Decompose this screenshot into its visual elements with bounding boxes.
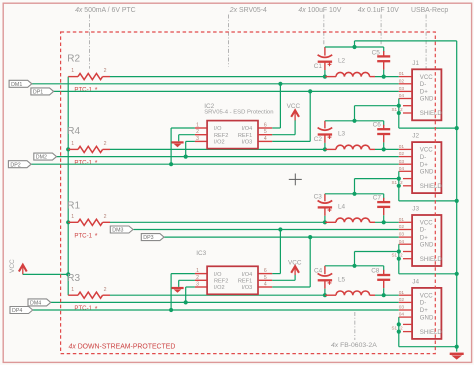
svg-text:*: * bbox=[95, 233, 98, 240]
svg-text:I/O: I/O bbox=[214, 126, 222, 132]
leader for FB-0603 label bbox=[354, 312, 356, 340]
node J4 S1/S2 shield junctions bbox=[397, 322, 401, 326]
wire net DP4 bbox=[33, 309, 399, 311]
resistor R2 (PTC fuse) bbox=[67, 54, 110, 95]
svg-text:4x 500mA / 6V PTC: 4x 500mA / 6V PTC bbox=[75, 7, 136, 14]
svg-text:02: 02 bbox=[399, 151, 405, 157]
svg-text:PTC-1: PTC-1 bbox=[74, 87, 92, 94]
wire right gnd bus bbox=[456, 41, 458, 352]
svg-text:4x 100uF 10V: 4x 100uF 10V bbox=[298, 7, 341, 14]
wire VBUS to coil bbox=[325, 76, 336, 78]
wire GND rail ch4 bbox=[325, 265, 384, 267]
svg-text:VCC: VCC bbox=[288, 259, 302, 266]
svg-text:C6: C6 bbox=[373, 121, 382, 128]
wire coil to C6 bbox=[370, 148, 375, 150]
node DM4 junction bbox=[184, 300, 188, 304]
svg-text:I/O2: I/O2 bbox=[214, 140, 225, 146]
node C3 / VBUS junction bbox=[323, 220, 327, 224]
wire J2 gnd/shield tie bbox=[398, 171, 400, 201]
node flag DP1 bbox=[31, 88, 54, 96]
svg-text:I/O4: I/O4 bbox=[242, 126, 253, 132]
resistor R3 (PTC fuse) bbox=[67, 273, 110, 313]
svg-text:S1: S1 bbox=[392, 326, 398, 331]
svg-text:04: 04 bbox=[399, 312, 405, 318]
svg-text:4x FB-0603-2A: 4x FB-0603-2A bbox=[331, 342, 377, 349]
svg-text:6: 6 bbox=[264, 268, 267, 274]
wire J1 shield to gnd bus bbox=[399, 127, 457, 129]
svg-text:USBA-Recp: USBA-Recp bbox=[411, 7, 448, 14]
svg-text:R1: R1 bbox=[67, 200, 80, 211]
svg-text:J4: J4 bbox=[412, 278, 419, 285]
svg-text:02: 02 bbox=[399, 78, 405, 84]
svg-text:R4: R4 bbox=[67, 126, 80, 137]
node flag DP2 bbox=[8, 161, 31, 169]
svg-text:C3: C3 bbox=[314, 193, 323, 200]
svg-text:C1: C1 bbox=[314, 63, 323, 70]
svg-text:1: 1 bbox=[71, 287, 74, 293]
node DP2 junction bbox=[169, 162, 173, 166]
svg-text:GND: GND bbox=[420, 169, 434, 176]
node C5 / VBUS junction bbox=[382, 75, 386, 79]
svg-text:PTC-1: PTC-1 bbox=[74, 305, 92, 312]
wire J1 gnd/shield tie bbox=[398, 99, 400, 129]
svg-text:C4: C4 bbox=[314, 268, 323, 275]
svg-text:PTC-1: PTC-1 bbox=[74, 232, 92, 239]
svg-text:01: 01 bbox=[399, 217, 405, 223]
wire coil to C8 bbox=[370, 294, 375, 296]
svg-text:D+: D+ bbox=[420, 89, 428, 96]
wire DP4 to IC pin 1 bbox=[170, 274, 172, 310]
node VBUS taps bbox=[66, 147, 70, 151]
node C7 / VBUS junction bbox=[382, 220, 386, 224]
inductor L2 (ferrite bead) bbox=[336, 58, 370, 77]
inductor L4 (ferrite bead) bbox=[336, 203, 370, 222]
wire VBUS R1 to C3 bbox=[110, 221, 325, 223]
svg-text:VCC: VCC bbox=[287, 103, 301, 110]
node DM1 junction bbox=[278, 82, 282, 86]
svg-text:4: 4 bbox=[264, 282, 267, 288]
svg-text:VCC: VCC bbox=[420, 292, 433, 299]
svg-text:PTC-1: PTC-1 bbox=[74, 159, 92, 166]
svg-text:03: 03 bbox=[399, 305, 405, 311]
svg-text:04: 04 bbox=[399, 239, 405, 245]
wire J4 shield to gnd bus bbox=[399, 346, 457, 348]
svg-text:GND: GND bbox=[420, 314, 434, 321]
svg-text:DM1: DM1 bbox=[11, 82, 22, 88]
node C4 / VBUS junction bbox=[323, 293, 327, 297]
wire VBUS feed bus bbox=[67, 77, 69, 296]
svg-text:1: 1 bbox=[71, 68, 74, 74]
svg-text:03: 03 bbox=[399, 159, 405, 165]
svg-text:1: 1 bbox=[196, 123, 199, 129]
node C1 / VBUS junction bbox=[323, 75, 327, 79]
svg-text:1: 1 bbox=[196, 268, 199, 274]
wire coil to C5 bbox=[370, 76, 375, 78]
wire GND rail ch1 bbox=[325, 46, 384, 48]
node C8 / VBUS junction bbox=[382, 293, 386, 297]
svg-text:03: 03 bbox=[399, 86, 405, 92]
svg-text:SHIELD: SHIELD bbox=[420, 329, 443, 336]
wire GND rail ch3 bbox=[325, 193, 384, 195]
wire VBUS to coil bbox=[325, 221, 336, 223]
svg-text:2: 2 bbox=[104, 68, 107, 74]
wire DM1 to IC pin 6 bbox=[279, 84, 281, 128]
svg-text:I/O: I/O bbox=[214, 272, 222, 278]
wire net DP2 bbox=[31, 163, 399, 165]
node DM3 junction bbox=[278, 227, 282, 231]
svg-text:02: 02 bbox=[399, 224, 405, 230]
svg-text:1: 1 bbox=[71, 141, 74, 147]
J1 pin stubs bbox=[392, 71, 413, 113]
node flag DM4 bbox=[28, 299, 51, 307]
svg-text:C8: C8 bbox=[371, 268, 380, 275]
svg-text:REF2: REF2 bbox=[214, 133, 228, 139]
node rail riser ch2 bbox=[352, 119, 356, 123]
svg-text:01: 01 bbox=[399, 144, 405, 150]
wire DP3 to IC pin 4 bbox=[309, 237, 311, 287]
wire rail riser to J2 shield bbox=[354, 179, 356, 194]
svg-text:4x DOWN-STREAM-PROTECTED: 4x DOWN-STREAM-PROTECTED bbox=[69, 343, 176, 350]
connector J1 (USB-A receptacle) bbox=[412, 60, 442, 121]
svg-text:C7: C7 bbox=[373, 194, 382, 201]
svg-text:01: 01 bbox=[399, 290, 405, 296]
inductor L3 (ferrite bead) bbox=[336, 131, 370, 150]
svg-text:DP3: DP3 bbox=[143, 235, 153, 241]
connector J3 (USB-A receptacle) bbox=[412, 206, 442, 267]
J2 pin stubs bbox=[392, 144, 413, 186]
wire net DM2 bbox=[57, 156, 399, 158]
svg-text:VCC: VCC bbox=[420, 147, 433, 154]
power VCC at IC3 bbox=[294, 275, 296, 281]
svg-text:2: 2 bbox=[104, 141, 107, 147]
wire net DM1 bbox=[32, 83, 399, 85]
node DP3 junction bbox=[308, 235, 312, 239]
svg-text:D-: D- bbox=[420, 81, 426, 88]
svg-text:D+: D+ bbox=[420, 234, 428, 241]
svg-text:S1: S1 bbox=[392, 180, 398, 185]
svg-text:DM4: DM4 bbox=[30, 301, 41, 307]
down-stream-protected dashed outline bbox=[61, 32, 436, 354]
capacitor C4 (polarized 100uF) bbox=[314, 266, 332, 295]
connector J2 (USB-A receptacle) bbox=[412, 133, 442, 194]
svg-text:DP1: DP1 bbox=[33, 90, 43, 96]
IC3 pin 2 stub and gnd bbox=[195, 279, 207, 281]
wire net DM4 bbox=[51, 301, 399, 303]
svg-text:R3: R3 bbox=[67, 273, 80, 284]
svg-text:2: 2 bbox=[104, 287, 107, 293]
node flag DP3 bbox=[141, 234, 164, 242]
IC2 pin 5 stub to VCC bbox=[258, 134, 272, 136]
IC2 pin 2 stub and gnd bbox=[195, 134, 207, 136]
node gnd bus junction ch2 bbox=[455, 199, 459, 203]
svg-text:L2: L2 bbox=[338, 58, 346, 65]
svg-text:VCC: VCC bbox=[420, 220, 433, 227]
svg-text:02: 02 bbox=[399, 297, 405, 303]
svg-text:S1: S1 bbox=[392, 253, 398, 258]
node rail riser ch3 bbox=[352, 192, 356, 196]
IC3 pin 5 stub to VCC bbox=[258, 279, 272, 281]
svg-text:I/O3: I/O3 bbox=[242, 140, 253, 146]
node J1 S1/S2 shield junctions bbox=[397, 104, 401, 108]
svg-text:D+: D+ bbox=[420, 161, 428, 168]
capacitor C6 (0.1uF) bbox=[373, 121, 391, 150]
wire DP1 to IC pin 4 bbox=[309, 91, 311, 141]
svg-text:DP4: DP4 bbox=[12, 308, 22, 314]
wire VBUS R3 to C4 bbox=[110, 294, 325, 296]
wire DM2 to IC pin 3 bbox=[185, 141, 187, 156]
wire GND rail ch2 bbox=[325, 120, 384, 122]
wire rail riser to J3 shield bbox=[354, 252, 356, 266]
wire DP2 to IC pin 1 bbox=[170, 128, 172, 164]
svg-text:R2: R2 bbox=[67, 54, 80, 65]
svg-text:3: 3 bbox=[196, 282, 199, 288]
wire J3 shield to gnd bus bbox=[399, 273, 457, 275]
svg-text:*: * bbox=[95, 87, 98, 94]
node C2 / VBUS junction bbox=[323, 147, 327, 151]
capacitor C3 (polarized 100uF) bbox=[314, 193, 333, 222]
wire J2 shield to gnd bus bbox=[399, 200, 457, 202]
connector J4 (USB-A receptacle) bbox=[412, 278, 442, 339]
svg-text:D+: D+ bbox=[420, 307, 428, 314]
wire J3 gnd/shield tie bbox=[398, 244, 400, 274]
capacitor C8 (0.1uF) bbox=[371, 266, 390, 295]
wire VBUS R4 to C2 bbox=[110, 148, 325, 150]
svg-text:D-: D- bbox=[420, 300, 426, 307]
op-amp/ESD IC IC3 (SRV05-4) bbox=[196, 250, 267, 294]
wire VBUS R2 to C1 bbox=[110, 76, 325, 78]
wire VCC to bus bbox=[23, 273, 68, 275]
svg-text:*: * bbox=[95, 306, 98, 313]
svg-text:4: 4 bbox=[264, 136, 267, 142]
svg-text:SHIELD: SHIELD bbox=[420, 183, 443, 190]
svg-text:DM2: DM2 bbox=[36, 155, 47, 161]
J4 pin stubs bbox=[392, 290, 413, 332]
svg-text:L3: L3 bbox=[338, 131, 346, 138]
svg-text:GND: GND bbox=[420, 96, 434, 103]
resistor R1 (PTC fuse) bbox=[67, 200, 110, 240]
svg-text:REF2: REF2 bbox=[214, 279, 228, 285]
capacitor C2 (polarized 100uF) bbox=[314, 121, 332, 150]
svg-text:2: 2 bbox=[104, 214, 107, 220]
svg-text:3: 3 bbox=[196, 136, 199, 142]
svg-text:04: 04 bbox=[399, 93, 405, 99]
node J2 S1/S2 shield junctions bbox=[397, 177, 401, 181]
svg-text:L4: L4 bbox=[338, 203, 346, 210]
svg-text:VCC: VCC bbox=[420, 74, 433, 81]
wire J4 gnd/shield tie bbox=[398, 317, 400, 347]
wire rail riser to top gnd run bbox=[354, 41, 356, 47]
node flag DM1 bbox=[9, 80, 32, 88]
node J3 S1/S2 shield junctions bbox=[397, 249, 401, 253]
svg-text:REF1: REF1 bbox=[238, 279, 252, 285]
node gnd bus junction ch4 bbox=[455, 345, 459, 349]
svg-text:SHIELD: SHIELD bbox=[420, 110, 443, 117]
wire DM3 to IC pin 6 bbox=[279, 230, 281, 274]
node DP4 junction bbox=[169, 308, 173, 312]
wire coil to C7 bbox=[370, 221, 375, 223]
node flag DM3 bbox=[110, 226, 133, 234]
svg-text:IC3: IC3 bbox=[196, 250, 206, 257]
svg-text:SRV05-4 - ESD Protection: SRV05-4 - ESD Protection bbox=[204, 110, 273, 116]
ground earth symbol (bottom right) bbox=[450, 353, 464, 355]
node gnd bus junction ch1 bbox=[455, 126, 459, 130]
svg-text:04: 04 bbox=[399, 166, 405, 172]
ground symbol at IC2 bbox=[171, 141, 183, 143]
node flag DP4 bbox=[10, 307, 33, 315]
ground symbol at IC3 bbox=[171, 287, 183, 289]
wire DM4 to IC pin 3 bbox=[185, 287, 187, 302]
svg-text:D-: D- bbox=[420, 154, 426, 161]
svg-text:4x 0.1uF 10V: 4x 0.1uF 10V bbox=[358, 7, 399, 14]
node DP1 junction bbox=[308, 89, 312, 93]
node rail riser ch1 bbox=[352, 45, 356, 49]
svg-text:L5: L5 bbox=[338, 276, 346, 283]
node DM2 junction bbox=[184, 155, 188, 159]
leader lines bbox=[89, 15, 91, 69]
svg-text:I/O3: I/O3 bbox=[242, 285, 253, 291]
wire net DP1 bbox=[53, 90, 398, 92]
svg-text:1: 1 bbox=[71, 214, 74, 220]
node rail riser ch4 bbox=[352, 264, 356, 268]
J3 pin stubs bbox=[392, 217, 413, 259]
wire rail riser to J1 shield bbox=[354, 106, 356, 121]
node gnd bus junction ch3 bbox=[455, 272, 459, 276]
inductor L5 (ferrite bead) bbox=[336, 276, 370, 295]
svg-text:REF1: REF1 bbox=[238, 133, 252, 139]
svg-text:DM3: DM3 bbox=[112, 228, 123, 234]
svg-text:*: * bbox=[95, 160, 98, 167]
capacitor C1 (polarized 100uF) bbox=[314, 47, 332, 77]
svg-text:I/O2: I/O2 bbox=[214, 285, 225, 291]
svg-text:2x SRV05-4: 2x SRV05-4 bbox=[229, 7, 267, 14]
wire VBUS to coil bbox=[325, 294, 336, 296]
wire net DM3 bbox=[134, 229, 399, 231]
wire VBUS to coil bbox=[325, 148, 336, 150]
node C6 / VBUS junction bbox=[382, 147, 386, 151]
svg-text:J3: J3 bbox=[412, 206, 419, 213]
resistor R4 (PTC fuse) bbox=[67, 126, 110, 167]
sheet origin crosshair bbox=[289, 178, 302, 180]
svg-text:01: 01 bbox=[399, 71, 405, 77]
capacitor C7 (0.1uF) bbox=[373, 194, 390, 223]
svg-text:DP2: DP2 bbox=[10, 162, 20, 168]
op-amp/ESD IC IC2 (SRV05-4) bbox=[196, 103, 273, 149]
svg-text:C2: C2 bbox=[314, 136, 323, 143]
svg-text:J1: J1 bbox=[412, 60, 419, 67]
svg-text:C5: C5 bbox=[372, 49, 381, 56]
capacitor C5 (0.1uF) bbox=[372, 47, 391, 77]
svg-text:6: 6 bbox=[264, 123, 267, 129]
svg-text:SHIELD: SHIELD bbox=[420, 256, 443, 263]
wire net DP3 bbox=[164, 236, 399, 238]
svg-text:D-: D- bbox=[420, 227, 426, 234]
node flag DM2 bbox=[34, 153, 57, 161]
svg-text:03: 03 bbox=[399, 232, 405, 238]
svg-text:VCC: VCC bbox=[9, 259, 16, 273]
svg-text:I/O4: I/O4 bbox=[242, 272, 253, 278]
svg-text:S1: S1 bbox=[392, 107, 398, 112]
svg-text:J2: J2 bbox=[412, 133, 419, 140]
svg-text:GND: GND bbox=[420, 241, 434, 248]
power VCC at IC2 bbox=[294, 120, 296, 135]
